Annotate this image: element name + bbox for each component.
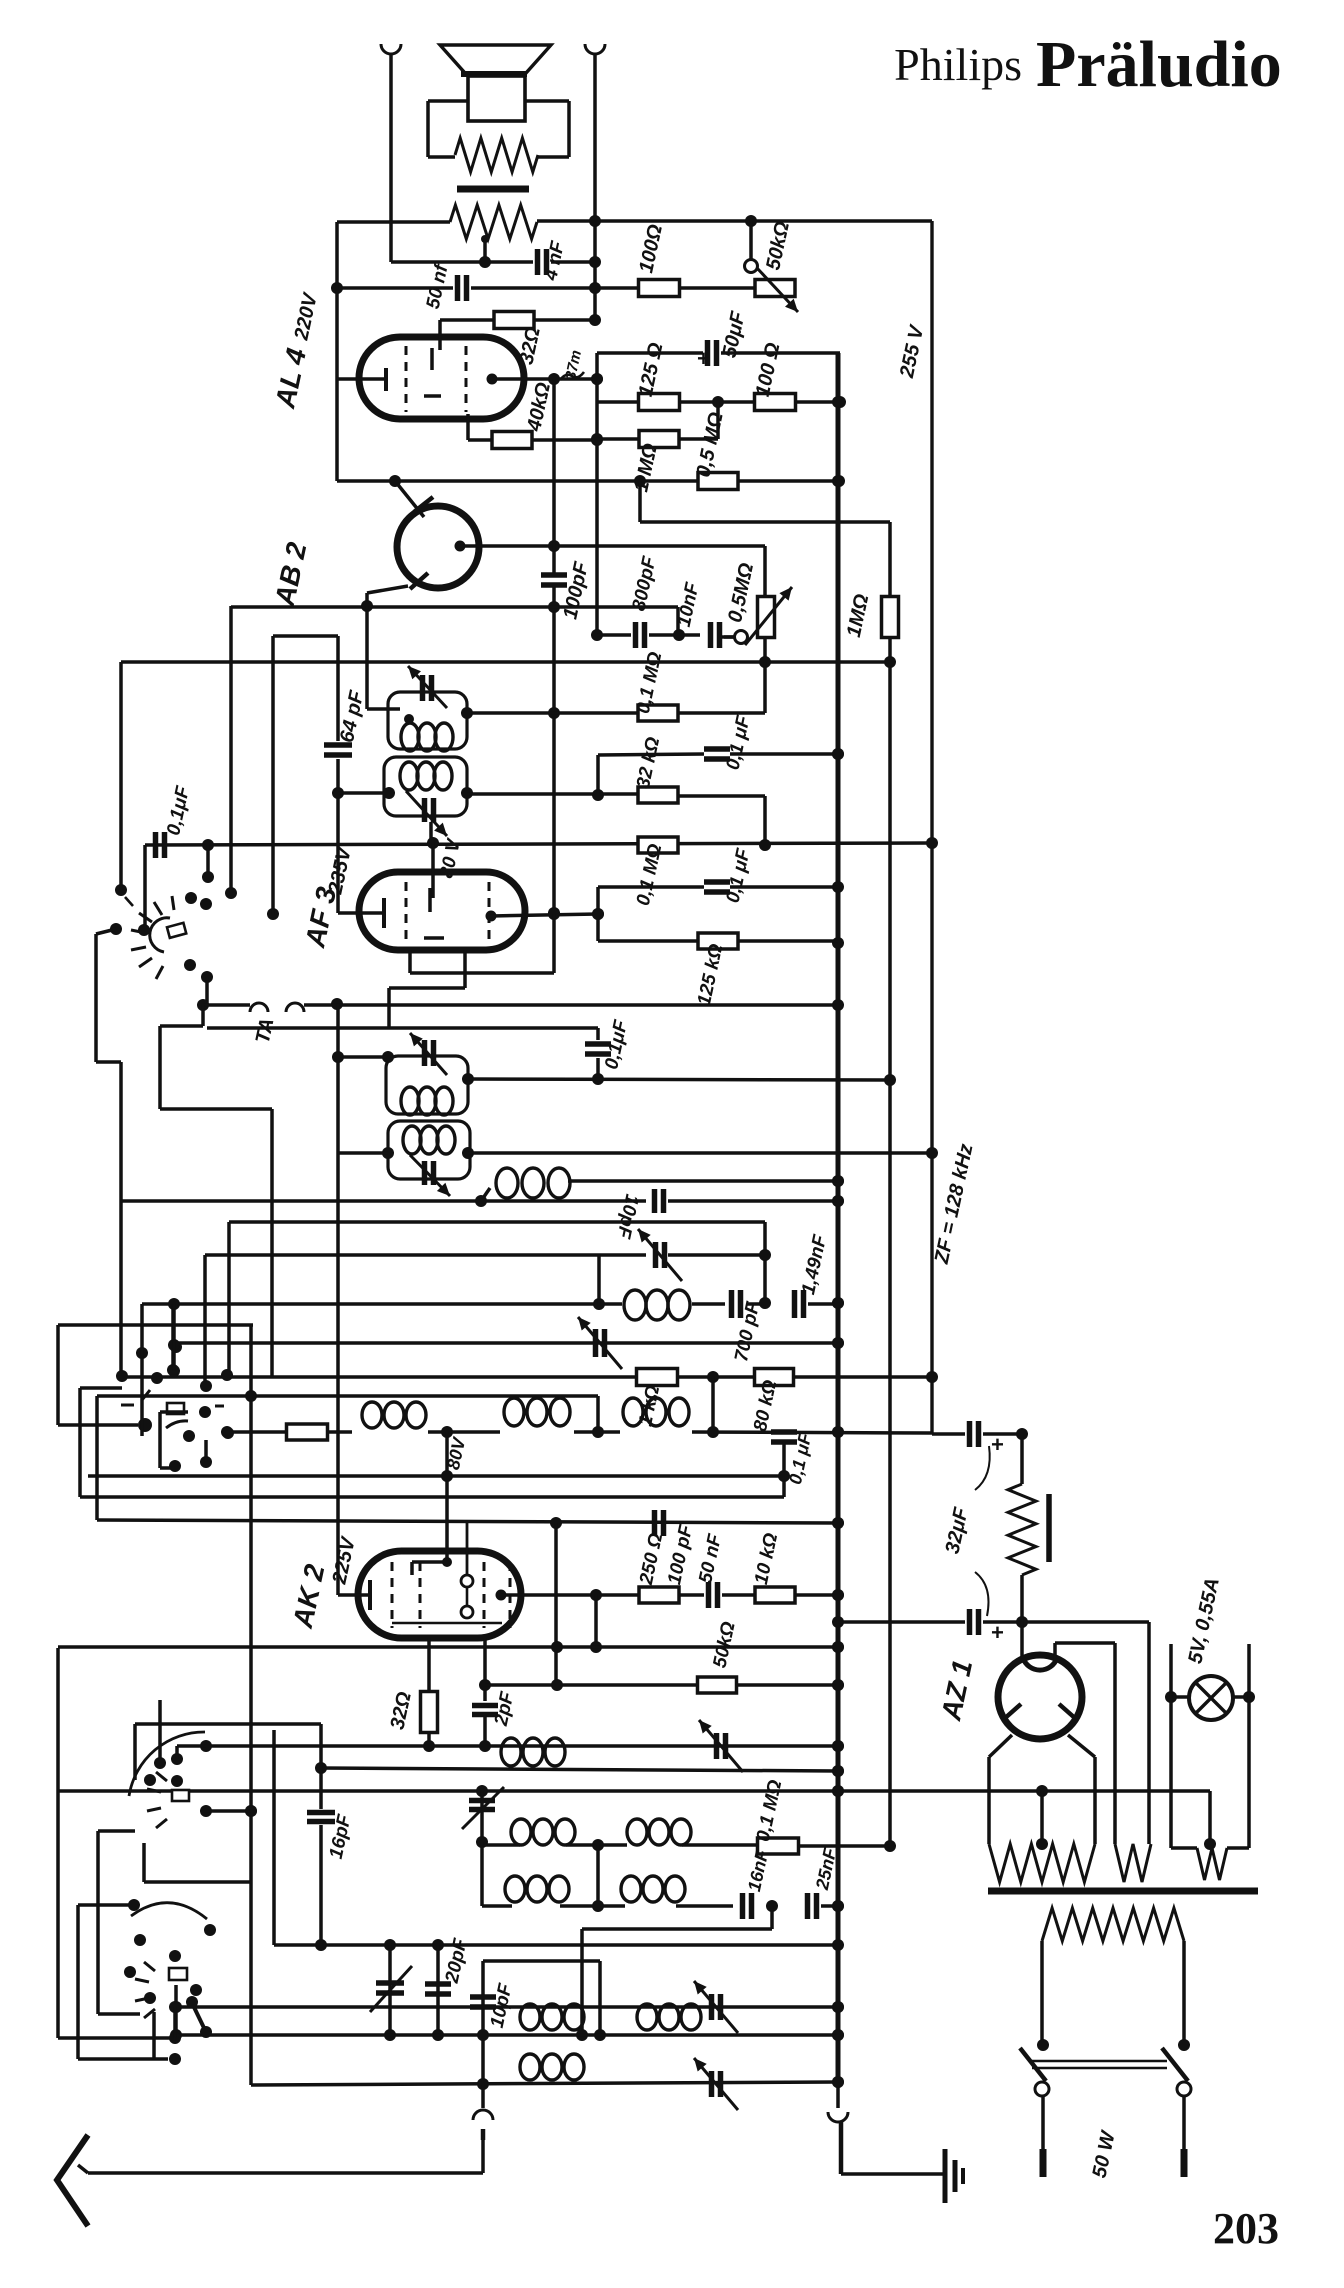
svg-text:Philips: Philips [894, 39, 1022, 90]
svg-text:203: 203 [1213, 2204, 1279, 2253]
svg-text:Präludio: Präludio [1036, 28, 1282, 101]
svg-text:+: + [697, 346, 710, 371]
